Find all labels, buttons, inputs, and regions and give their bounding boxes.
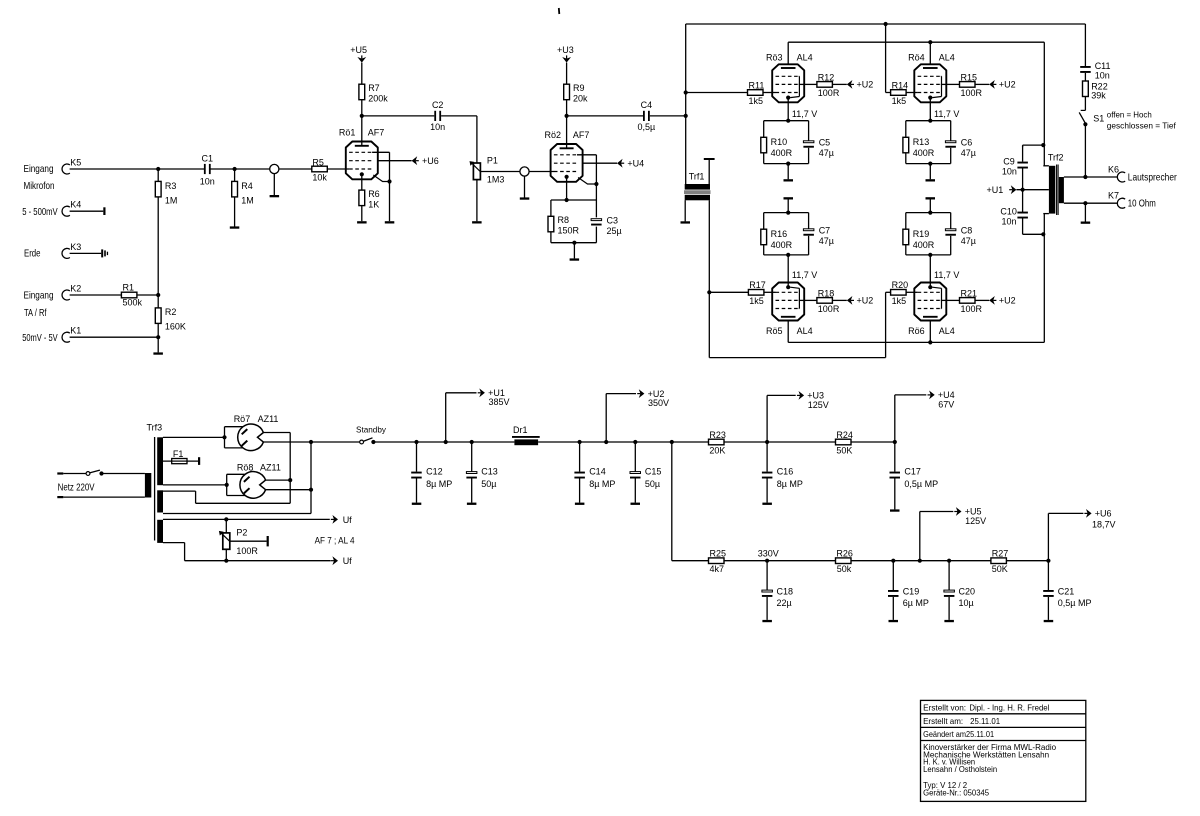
svg-text:AL4: AL4 [797,52,813,62]
svg-text:R15: R15 [961,72,978,82]
svg-text:C16: C16 [777,466,794,476]
svg-text:R24: R24 [836,430,853,440]
svg-text:20k: 20k [573,94,588,104]
svg-text:Rö8: Rö8 [237,462,254,472]
svg-text:400R: 400R [771,148,793,158]
svg-text:AZ11: AZ11 [258,414,279,424]
svg-text:50k: 50k [837,564,852,574]
svg-text:Rö1: Rö1 [339,128,356,138]
svg-text:Netz 220V: Netz 220V [58,482,95,493]
svg-text:AL4: AL4 [939,326,955,336]
svg-text:K7: K7 [1108,191,1119,201]
svg-text:Lautsprecher: Lautsprecher [1128,172,1177,183]
svg-text:18,7V: 18,7V [1092,520,1116,530]
svg-text:R10: R10 [771,137,788,147]
svg-text:1k5: 1k5 [749,96,764,106]
svg-text:C1: C1 [202,154,214,164]
svg-text:+U1: +U1 [987,185,1004,195]
svg-text:Lensahn / Ostholstein: Lensahn / Ostholstein [923,764,997,774]
svg-text:50mV - 5V: 50mV - 5V [22,333,58,344]
svg-text:R27: R27 [992,549,1009,559]
svg-text:Rö4: Rö4 [908,52,925,62]
svg-text:C12: C12 [426,466,443,476]
svg-text:0,5µ MP: 0,5µ MP [904,479,938,489]
svg-text:11,7 V: 11,7 V [934,109,959,119]
svg-text:C8: C8 [961,226,973,236]
svg-text:10n: 10n [1002,217,1017,227]
svg-text:Rö2: Rö2 [545,130,562,140]
svg-text:67V: 67V [938,399,954,409]
svg-text:50K: 50K [992,564,1008,574]
svg-text:25µ: 25µ [607,226,622,236]
svg-text:TA / Rf: TA / Rf [24,308,47,319]
svg-text:R9: R9 [573,83,585,93]
svg-text:1M3: 1M3 [487,175,505,185]
svg-text:200k: 200k [368,94,388,104]
svg-text:R3: R3 [165,181,177,191]
svg-text:S1: S1 [1093,114,1104,124]
svg-text:+U2: +U2 [857,80,874,90]
svg-text:125V: 125V [965,516,986,526]
svg-text:C4: C4 [641,100,653,110]
svg-text:150R: 150R [558,226,580,236]
svg-text:+U4: +U4 [627,158,644,168]
svg-text:R25: R25 [710,549,727,559]
svg-text:AL4: AL4 [939,52,955,62]
svg-text:1K: 1K [368,200,379,210]
svg-text:25.11.01: 25.11.01 [970,716,1000,726]
svg-text:Geändert am25.11.01: Geändert am25.11.01 [923,729,994,739]
svg-text:C21: C21 [1058,587,1075,597]
svg-text:C18: C18 [777,587,794,597]
svg-text:K2: K2 [70,284,81,294]
svg-text:1k5: 1k5 [892,96,907,106]
svg-text:AF7: AF7 [368,128,385,138]
svg-text:100R: 100R [961,88,983,98]
svg-text:47µ: 47µ [961,148,976,158]
svg-text:+U3: +U3 [557,45,574,55]
svg-text:AF7: AF7 [573,130,590,140]
svg-text:K3: K3 [70,242,81,252]
svg-text:Mikrofon: Mikrofon [24,181,55,192]
svg-text:+U2: +U2 [857,296,874,306]
svg-text:Trf3: Trf3 [147,423,163,433]
svg-text:47µ: 47µ [961,236,976,246]
svg-text:50µ: 50µ [481,479,496,489]
svg-text:R13: R13 [913,137,930,147]
svg-text:10 Ohm: 10 Ohm [1128,199,1156,210]
svg-text:R4: R4 [241,181,253,191]
svg-text:400R: 400R [771,240,793,250]
svg-text:125V: 125V [808,400,829,410]
svg-text:C6: C6 [961,138,973,148]
svg-text:C14: C14 [589,466,606,476]
svg-text:Dr1: Dr1 [513,425,528,435]
svg-text:Geräte-Nr.: 050345: Geräte-Nr.: 050345 [923,787,989,797]
svg-text:400R: 400R [913,240,935,250]
svg-text:R19: R19 [913,229,930,239]
svg-text:K6: K6 [1108,164,1119,174]
svg-text:AF 7 ; AL 4: AF 7 ; AL 4 [315,536,355,546]
svg-text:1k5: 1k5 [749,296,764,306]
svg-text:8µ MP: 8µ MP [589,479,615,489]
svg-text:5 - 500mV: 5 - 500mV [22,207,58,218]
svg-text:C19: C19 [903,587,920,597]
svg-text:Trf2: Trf2 [1048,152,1064,162]
svg-text:R17: R17 [749,280,766,290]
svg-text:100R: 100R [236,546,258,556]
svg-text:0,5µ MP: 0,5µ MP [1058,598,1092,608]
svg-text:Rö5: Rö5 [766,326,783,336]
svg-text:500k: 500k [123,297,143,307]
svg-text:R26: R26 [836,549,853,559]
svg-text:11,7 V: 11,7 V [792,109,817,119]
svg-text:AL4: AL4 [797,326,813,336]
svg-text:100R: 100R [818,88,840,98]
svg-text:47µ: 47µ [819,148,834,158]
svg-text:R20: R20 [892,280,909,290]
svg-text:C20: C20 [959,587,976,597]
svg-text:Eingang: Eingang [24,290,54,301]
svg-text:20K: 20K [709,446,725,456]
svg-text:11,7 V: 11,7 V [792,270,817,280]
svg-text:R11: R11 [749,80,765,90]
svg-text:400R: 400R [913,148,935,158]
svg-text:R23: R23 [709,430,726,440]
svg-text:C13: C13 [481,466,498,476]
svg-text:C3: C3 [607,215,619,225]
svg-text:R16: R16 [771,229,788,239]
svg-text:F1: F1 [173,449,184,459]
svg-text:385V: 385V [489,397,510,407]
svg-text:350V: 350V [648,398,669,408]
svg-text:8µ MP: 8µ MP [426,479,452,489]
svg-text:K5: K5 [70,158,81,168]
svg-text:Dipl. - Ing. H. R. Fredel: Dipl. - Ing. H. R. Fredel [969,703,1049,713]
svg-text:C11: C11 [1095,61,1111,71]
svg-text:100R: 100R [961,304,983,314]
svg-text:R6: R6 [368,189,380,199]
svg-text:Rö6: Rö6 [908,326,925,336]
svg-text:C10: C10 [1000,207,1017,217]
svg-text:R12: R12 [818,72,835,82]
svg-text:+U6: +U6 [422,156,439,166]
svg-text:K4: K4 [70,200,81,210]
svg-text:+U2: +U2 [999,296,1016,306]
svg-text:Rö3: Rö3 [766,52,783,62]
svg-text:10n: 10n [1002,167,1017,177]
svg-text:Trf1: Trf1 [689,171,705,181]
svg-text:R8: R8 [558,215,570,225]
svg-text:C9: C9 [1003,156,1015,166]
svg-text:Erde: Erde [24,249,41,260]
svg-text:10n: 10n [1095,71,1110,81]
svg-text:R14: R14 [892,80,909,90]
svg-text:offen = Hoch: offen = Hoch [1107,110,1152,120]
svg-text:C15: C15 [645,466,662,476]
svg-text:39k: 39k [1091,90,1106,100]
svg-text:Eingang: Eingang [24,164,54,175]
svg-text:100R: 100R [818,304,840,314]
svg-text:Erstellt von:: Erstellt von: [923,703,966,713]
svg-text:Uf: Uf [343,556,352,566]
svg-text:R5: R5 [312,157,324,167]
svg-text:P2: P2 [236,527,247,537]
svg-text:10k: 10k [312,172,327,182]
svg-text:10µ: 10µ [959,598,974,608]
svg-text:C5: C5 [819,138,831,148]
svg-text:R1: R1 [123,282,135,292]
svg-text:0,5µ: 0,5µ [638,122,656,132]
svg-text:C17: C17 [904,466,921,476]
svg-text:10n: 10n [200,177,215,187]
svg-text:R7: R7 [368,83,380,93]
svg-text:+U6: +U6 [1095,509,1112,519]
svg-text:330V: 330V [758,549,779,559]
svg-text:8µ MP: 8µ MP [777,479,803,489]
svg-text:R21: R21 [961,288,978,298]
svg-text:P1: P1 [487,156,498,166]
svg-text:1M: 1M [241,196,254,206]
svg-text:AZ11: AZ11 [260,462,281,472]
svg-text:Uf: Uf [343,515,352,525]
svg-text:1k5: 1k5 [892,296,907,306]
svg-text:Erstellt am:: Erstellt am: [923,716,963,726]
svg-text:+U5: +U5 [350,45,367,55]
svg-text:6µ MP: 6µ MP [903,598,929,608]
svg-text:160K: 160K [165,322,186,332]
svg-text:K1: K1 [70,326,81,336]
svg-text:+U2: +U2 [999,80,1016,90]
svg-text:R18: R18 [818,288,835,298]
svg-text:R2: R2 [165,307,177,317]
svg-text:Rö7: Rö7 [234,414,251,424]
svg-text:22µ: 22µ [777,598,792,608]
svg-text:10n: 10n [430,122,445,132]
svg-text:47µ: 47µ [819,236,834,246]
svg-text:Standby: Standby [356,425,387,435]
svg-text:C7: C7 [819,226,831,236]
svg-text:1M: 1M [165,196,178,206]
svg-text:4k7: 4k7 [710,564,725,574]
svg-text:50µ: 50µ [645,479,660,489]
svg-text:11,7 V: 11,7 V [934,270,959,280]
svg-text:C2: C2 [432,100,444,110]
svg-text:50K: 50K [836,446,852,456]
svg-text:geschlossen = Tief: geschlossen = Tief [1107,121,1177,131]
